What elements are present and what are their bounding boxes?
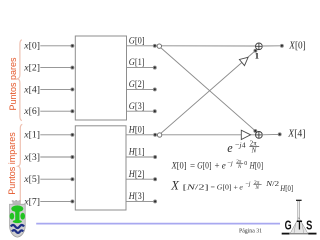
wire G[0] node to upper adder [161,45,255,47]
svg-text:G[3]: G[3] [129,101,145,111]
logo: GTS tower pyramid [290,218,308,234]
svg-text:x[3]: x[3] [23,152,40,162]
svg-text:N: N [237,165,242,170]
svg-text:T: T [297,219,303,233]
wire x[6] into upper DFT box [40,110,71,112]
svg-text:S: S [306,219,312,233]
svg-text:N: N [251,148,257,155]
formula: X[N/2] = G[0] + e^(-j 2pi/N N/2) H[0] [170,179,293,193]
svg-text:[N/2]: [N/2] [183,182,210,191]
svg-text:−j: −j [227,160,233,167]
svg-text:N: N [254,185,259,191]
svg-text:x[5]: x[5] [23,174,40,184]
svg-text:Página 31: Página 31 [239,229,262,235]
adder for X[4] [256,132,263,139]
wire adder to X[0] [262,44,284,47]
svg-text:H[3]: H[3] [128,191,145,201]
brace: puntos impares [18,124,22,208]
wire G[2] output stub [127,88,155,90]
svg-text:G[0]: G[0] [217,182,232,191]
formula: X[0] = G[0] + e^(-j 2pi/N 0) H[0] [171,160,263,170]
svg-text:1: 1 [255,51,259,61]
logo: GTS antenna mast [296,200,302,219]
svg-text:H[0]: H[0] [128,124,145,134]
brace: puntos pares [17,40,22,121]
svg-text:x[6]: x[6] [23,106,40,116]
wire G[0] node diagonal to lower adder [161,48,257,133]
logo: university shield body [10,204,26,237]
svg-text:x[0]: x[0] [23,41,40,51]
wire H[0] node diagonal to upper adder [161,49,257,133]
gain triangle on H[0]-to-X[0] diagonal [239,57,248,65]
svg-text:Puntos impares: Puntos impares [7,132,17,195]
gain triangle on lower horizontal wire [241,130,250,139]
footer rule [36,223,280,225]
svg-text:X: X [170,179,179,193]
svg-text:H[0]: H[0] [249,160,263,170]
block: upper N/2 DFT box [75,36,126,120]
wire adder to X[4] [262,133,281,136]
wire x[7] into lower DFT box [40,200,71,202]
svg-text:N/2: N/2 [265,180,280,188]
svg-text:x[1]: x[1] [23,130,40,140]
svg-text:G[2]: G[2] [129,79,145,89]
wire G[1] output stub [127,67,155,69]
logo: shield waves (navy) [11,225,24,233]
wire H[2] output stub [126,178,154,180]
svg-text:x[2]: x[2] [23,63,40,73]
svg-text:+: + [234,182,239,191]
wire H[0] output stub [126,134,154,136]
wire H[3] output stub [126,200,154,202]
block: lower N/2 DFT box [75,126,126,210]
svg-text:0: 0 [244,161,247,167]
wire x[3] into lower DFT box [40,156,71,158]
svg-text:G: G [285,219,292,233]
svg-text:x[7]: x[7] [23,196,40,206]
svg-text:−j4: −j4 [235,141,246,150]
svg-text:G[0]: G[0] [197,160,211,170]
svg-text:−j: −j [245,181,251,188]
wire x[1] into lower DFT box [40,134,71,136]
logo: shield olive tree (green) [10,205,25,223]
wire G[3] output stub [127,110,155,112]
wire x[0] into upper DFT box [40,44,74,203]
svg-text:G[1]: G[1] [129,57,145,67]
svg-text:+: + [215,160,220,170]
logo: university shield crown [12,200,21,204]
svg-text:G[0]: G[0] [129,35,145,45]
node circle H[0] [157,133,161,137]
wire x[5] into lower DFT box [40,178,71,180]
node circle G[0] [157,44,161,48]
wire H[1] output stub [126,156,154,158]
svg-text:=: = [190,160,195,170]
svg-text:H[0]: H[0] [279,184,293,193]
adder for X[0] [256,43,263,50]
svg-text:X[4]: X[4] [287,128,305,139]
wire G[0] output stub [126,44,157,203]
wire x[4] into upper DFT box [40,88,71,90]
svg-text:x[4]: x[4] [23,84,40,94]
svg-text:X[0]: X[0] [288,40,305,51]
svg-text:H[1]: H[1] [128,147,145,157]
svg-text:X[0]: X[0] [171,160,187,170]
svg-text:Puntos pares: Puntos pares [8,57,18,111]
svg-text:e: e [222,160,226,170]
svg-text:e: e [239,182,243,191]
svg-text:=: = [211,182,216,191]
svg-text:H[2]: H[2] [128,169,145,179]
wire H[0] node to gain triangle and lower adder [162,134,256,136]
wire x[2] into upper DFT box [40,67,71,69]
value label e^-j4·2pi/N on lower gain [227,141,259,156]
svg-text:e: e [227,141,233,155]
logo: GTS base dashes [282,233,317,235]
